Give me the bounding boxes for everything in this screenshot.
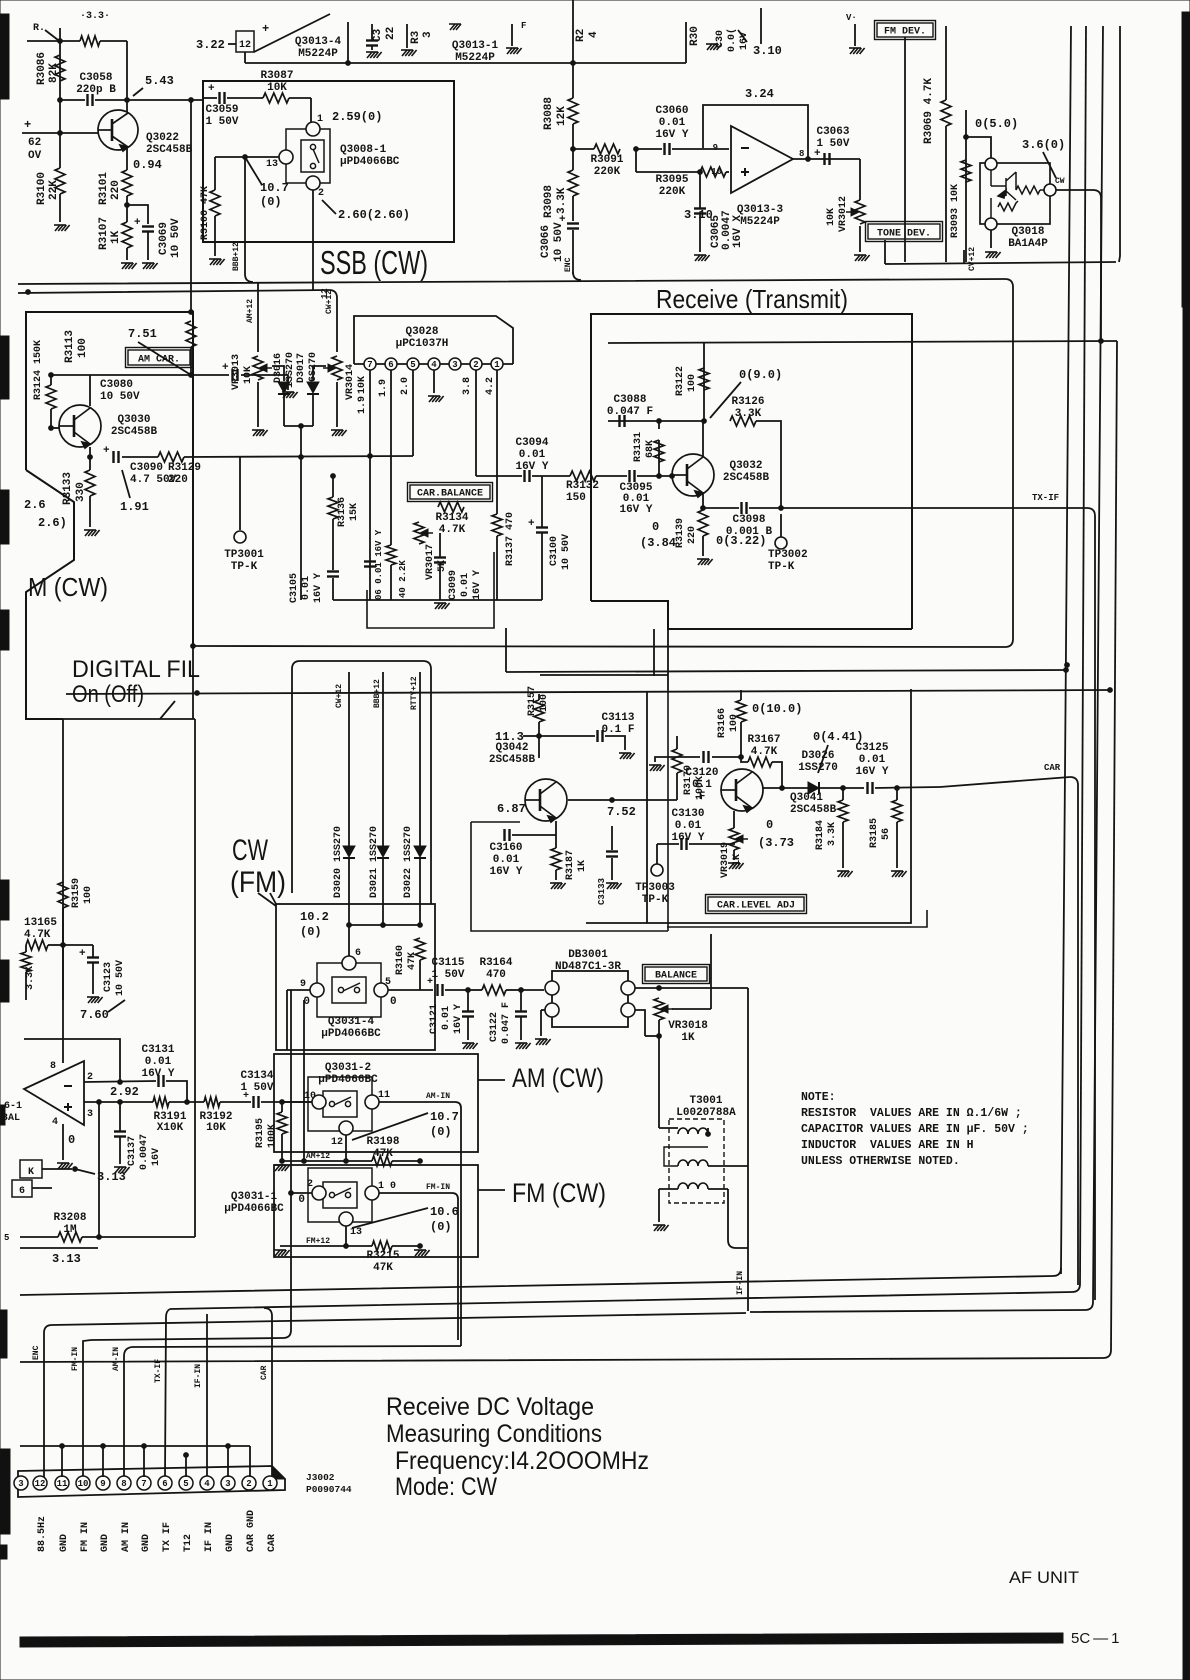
Q3042 box right lower <box>667 690 669 931</box>
node r3215 <box>418 1244 423 1249</box>
AM switch outer box <box>274 1054 478 1152</box>
svg-text:Q3013-1M5224P: Q3013-1M5224P <box>452 40 499 64</box>
wire pin5 t12 <box>185 1455 187 1477</box>
svg-text:Q3013-4M5224P: Q3013-4M5224P <box>295 36 342 60</box>
wire VR3018 arrow in <box>672 1008 711 1010</box>
leader 10.6 <box>352 1208 428 1228</box>
svg-text:C31250.0116V Y: C31250.0116V Y <box>855 742 888 778</box>
node r3208 <box>97 1235 102 1240</box>
op-amp Q3013-4 outline <box>254 14 330 52</box>
wire Q3032 emitter <box>702 494 704 508</box>
wire base lead <box>51 427 59 429</box>
IC pin 2 <box>470 358 482 370</box>
svg-text:3.10: 3.10 <box>753 44 782 58</box>
svg-text:7: 7 <box>141 1479 146 1489</box>
svg-text:D3020 1SS270: D3020 1SS270 <box>333 826 344 898</box>
node R3131 btm <box>657 474 662 479</box>
wire tone box right <box>963 250 965 264</box>
wire r3198 out <box>392 1160 420 1162</box>
capacitor C3 <box>366 41 378 46</box>
svg-text:TX-IF: TX-IF <box>154 1359 163 1383</box>
capacitor C3099 <box>434 558 446 563</box>
svg-text:R3088: R3088 <box>543 97 555 130</box>
diode D3016 <box>278 382 290 394</box>
wire to Q3018 top <box>966 137 991 158</box>
wire R3132 right <box>596 475 627 477</box>
node txif <box>779 506 784 511</box>
leader 3.22 <box>228 43 236 45</box>
node receive bottom <box>1065 663 1070 668</box>
connector pin 8 <box>117 1476 131 1490</box>
wire coil1 in v <box>658 1120 660 1128</box>
svg-text:C31310.0116V Y: C31310.0116V Y <box>141 1044 174 1080</box>
node gnd pin 144 <box>142 1444 147 1449</box>
svg-text:16V Y: 16V Y <box>313 573 324 603</box>
svg-text:22: 22 <box>385 27 397 40</box>
wire VR3018 up <box>710 934 712 1009</box>
svg-text:3: 3 <box>87 1109 93 1120</box>
Q3042 box right <box>667 629 669 690</box>
svg-text:Q30422SC458B: Q30422SC458B <box>489 742 536 766</box>
wire C3080 right <box>241 374 288 376</box>
node d3022 <box>418 923 423 928</box>
wire coil3 in <box>659 1188 678 1190</box>
leader 1.91 <box>122 470 130 498</box>
node R3165 <box>61 943 66 948</box>
wire am+12 rail <box>280 1160 372 1162</box>
svg-text:R3157: R3157 <box>527 686 538 716</box>
capacitor C3137 <box>114 1132 126 1137</box>
svg-text:R3: R3 <box>410 30 422 44</box>
wire coil1 in <box>659 1127 678 1129</box>
svg-text:R2: R2 <box>575 29 587 42</box>
wire car bend <box>1070 777 1078 1285</box>
svg-text:R30: R30 <box>689 26 701 46</box>
pot VR3017 <box>414 522 424 544</box>
svg-text:R3195: R3195 <box>255 1118 266 1148</box>
wire sw2 out <box>379 1101 455 1103</box>
svg-text:C30880.047 F: C30880.047 F <box>607 394 653 418</box>
wire diode join <box>284 425 313 427</box>
wire 670 stub <box>505 628 507 672</box>
connector pin 9 <box>96 1476 110 1490</box>
node C3122 <box>519 988 524 993</box>
svg-text:R3098: R3098 <box>543 185 555 218</box>
sw2 pin10 <box>312 1095 326 1109</box>
wire R3157 b <box>538 722 540 736</box>
pot VR3013 <box>259 364 272 372</box>
svg-text:C3066: C3066 <box>540 225 552 258</box>
pot VR3014 <box>323 364 336 372</box>
CW FM switch box <box>276 904 435 1050</box>
svg-text:3: 3 <box>452 360 457 370</box>
wire digital top rail <box>66 690 1110 694</box>
resistor R3113 <box>186 321 196 347</box>
svg-text:3: 3 <box>422 31 434 38</box>
Q3018 pin right <box>1044 184 1056 196</box>
wire inputs vert <box>635 149 637 172</box>
wire C3122 <box>520 990 522 1011</box>
svg-text:3.8: 3.8 <box>462 377 473 395</box>
svg-text:+: + <box>103 445 110 457</box>
node left col <box>58 98 63 103</box>
CW FM box <box>270 893 276 904</box>
wire R3139 btm <box>702 536 704 556</box>
node supply <box>571 61 576 66</box>
node top <box>58 39 63 44</box>
capacitor C3066 <box>559 214 579 229</box>
svg-text:BBB+12: BBB+12 <box>373 679 382 708</box>
wire R3126 out <box>756 421 781 508</box>
wire Q3018 out <box>1056 189 1093 191</box>
svg-text:CW: CW <box>1055 177 1065 186</box>
svg-text:GND: GND <box>225 1534 236 1552</box>
resistor R3069 <box>941 100 951 126</box>
svg-text:1: 1 <box>494 360 500 370</box>
svg-text:2.6: 2.6 <box>24 498 46 512</box>
sw2 pin12 <box>339 1121 353 1135</box>
wire C3065 v <box>699 172 701 208</box>
svg-text:3.6(0): 3.6(0) <box>1022 138 1065 152</box>
svg-text:D30261SS270: D30261SS270 <box>798 750 838 774</box>
svg-text:C3099: C3099 <box>448 570 459 600</box>
svg-text:R3100: R3100 <box>36 172 48 205</box>
wire coil3 out <box>708 1188 728 1190</box>
wire VR3013 btm <box>257 382 259 427</box>
svg-text:0.01: 0.01 <box>301 576 312 600</box>
ground C3065 <box>694 255 710 261</box>
wire gnd bus receive <box>333 599 542 601</box>
node digital <box>195 691 200 696</box>
bus wire 4 bend <box>20 1350 1111 1362</box>
svg-text:6: 6 <box>19 1186 25 1197</box>
svg-text:C3123: C3123 <box>103 962 114 992</box>
svg-text:4: 4 <box>204 1479 210 1489</box>
node t12 <box>184 1453 189 1458</box>
connector pin 10 <box>76 1476 90 1490</box>
bus wire 3 bend <box>750 1302 1093 1312</box>
svg-text:16V Y: 16V Y <box>453 1004 464 1034</box>
BALANCE box <box>643 965 710 984</box>
svg-text:8: 8 <box>799 149 804 159</box>
svg-text:6: 6 <box>355 948 361 959</box>
svg-text:CW+12: CW+12 <box>335 684 344 708</box>
wire stub k <box>42 1168 72 1170</box>
capacitor C3123 <box>79 948 99 963</box>
wire coil3 gnd <box>658 1189 660 1222</box>
ground fm sw <box>274 1250 290 1256</box>
svg-text:AM-IN: AM-IN <box>112 1347 121 1371</box>
svg-text:CAR.LEVEL ADJ: CAR.LEVEL ADJ <box>717 901 795 912</box>
wire C3 gnd <box>371 46 373 50</box>
wire txif down <box>165 1309 170 1477</box>
svg-text:2: 2 <box>473 360 478 370</box>
svg-text:7: 7 <box>367 360 372 370</box>
wire Q3022 collector <box>126 100 128 112</box>
svg-text:R3113: R3113 <box>64 330 76 363</box>
wire R3124 btm <box>50 409 52 428</box>
diode D3017 <box>307 382 319 394</box>
resistor R3165 <box>26 940 48 950</box>
wire D3020 v <box>348 672 350 846</box>
resistor R3159 <box>58 882 68 908</box>
wire DB lb gnd <box>541 1009 545 1011</box>
svg-text:R3131: R3131 <box>633 432 644 462</box>
svg-text:Q3031-1μPD4066BC: Q3031-1μPD4066BC <box>224 1191 284 1215</box>
resistor R3198 <box>372 1156 392 1166</box>
svg-text:16V: 16V <box>151 1148 162 1166</box>
svg-text:2.92: 2.92 <box>110 1085 139 1099</box>
wire R3100 top <box>59 133 61 168</box>
svg-text:+: + <box>222 362 229 374</box>
resistor R3139 <box>698 510 708 536</box>
wire pin1 down <box>497 370 522 476</box>
wire Q3032 base lead <box>671 475 673 476</box>
svg-text:3.13: 3.13 <box>52 1252 81 1266</box>
wire R3165 <box>48 944 63 946</box>
wire R3185 t <box>896 788 898 800</box>
node pin7 main <box>368 454 373 459</box>
right page edge strip <box>1182 12 1190 1680</box>
node R3122 <box>702 419 707 424</box>
pot VR3014 <box>332 356 342 380</box>
wire D3022 v <box>419 672 421 846</box>
leader 2.60 <box>322 200 336 214</box>
node d3020 <box>347 923 352 928</box>
switch Q3031-1 <box>308 1168 372 1222</box>
svg-text:ENC: ENC <box>564 257 573 272</box>
node emitter Q3032 <box>701 506 706 511</box>
svg-text:330: 330 <box>75 482 87 502</box>
connector pin 3 <box>14 1476 28 1490</box>
wire R3140 btm <box>390 565 392 600</box>
wire C3121 b <box>467 1017 469 1040</box>
wire DB lb elbow <box>540 1010 542 1036</box>
svg-text:3.3K: 3.3K <box>556 187 568 214</box>
leader 7.60 <box>108 1000 125 1012</box>
svg-text:D3021 1SS270: D3021 1SS270 <box>369 826 380 898</box>
wire vr3019 b <box>733 850 735 860</box>
svg-text:C30631 50V: C30631 50V <box>816 126 849 150</box>
wire 654 stub <box>653 629 655 676</box>
IC Q3028 bottom edge <box>354 363 513 365</box>
svg-text:5: 5 <box>4 1233 9 1243</box>
diode channel box <box>300 661 431 904</box>
wire R3106 top <box>214 157 216 190</box>
wire Q3018 gnd <box>990 230 992 248</box>
wire VR3014 btm <box>336 382 338 427</box>
pot VR3013 <box>253 356 263 380</box>
wire fm-in down <box>290 990 292 1330</box>
svg-text:5.43: 5.43 <box>145 74 174 88</box>
diode bridge DB3001 box <box>552 971 628 1027</box>
svg-text:(3.84: (3.84 <box>640 536 676 550</box>
svg-text:D3016: D3016 <box>273 353 284 383</box>
resistor R3100 <box>55 168 65 194</box>
svg-text:CAR GND: CAR GND <box>246 1510 257 1552</box>
wire R3164 r <box>506 989 521 991</box>
svg-text:AF UNIT: AF UNIT <box>1009 1568 1079 1587</box>
wire if-in bend <box>747 988 749 1311</box>
svg-text:FM-IN: FM-IN <box>426 1183 450 1192</box>
wire R3136 btm <box>332 519 334 570</box>
resistor R3122 <box>699 368 709 390</box>
wire R3069 top <box>945 26 947 100</box>
ground C3080 <box>282 392 298 398</box>
capacitor C3063 <box>825 153 830 165</box>
wire AM+12 down <box>257 282 259 352</box>
node diode join <box>299 424 304 429</box>
wire rb join <box>645 1035 659 1037</box>
svg-text:FM (CW): FM (CW) <box>512 1178 606 1208</box>
node r3198 <box>418 1159 423 1164</box>
capacitor C3065 <box>694 209 706 214</box>
wire to VR3012 <box>859 159 861 200</box>
svg-text:0(10.0): 0(10.0) <box>752 702 802 716</box>
ground VR3014 <box>331 430 347 436</box>
leader digital <box>160 701 175 719</box>
svg-text:IF-IN: IF-IN <box>736 1271 745 1295</box>
svg-text:C31130.1 F: C31130.1 F <box>601 712 634 736</box>
IC Q3028 outline <box>354 316 513 364</box>
svg-text:C31300.0116V Y: C31300.0116V Y <box>671 808 704 844</box>
wire R3091 left <box>573 148 594 150</box>
capacitor C3160 <box>505 829 510 841</box>
svg-text:+: + <box>79 948 86 960</box>
wire C3100 btm <box>541 533 543 600</box>
capacitor C3060 <box>665 143 670 155</box>
wire c3133 <box>611 826 613 850</box>
wire R3131 v <box>658 440 660 476</box>
svg-text:88.5Hz: 88.5Hz <box>37 1516 48 1552</box>
svg-text:5C — 1: 5C — 1 <box>1071 1630 1120 1647</box>
svg-text:R.: R. <box>33 23 45 34</box>
node car2 <box>895 786 900 791</box>
ground pin4 <box>428 396 444 402</box>
svg-text:FM IN: FM IN <box>80 1522 91 1552</box>
wire D3022 b <box>419 858 421 925</box>
svg-text:12: 12 <box>35 1479 46 1489</box>
ground C3137 <box>114 1167 130 1173</box>
CAR LEVEL ADJ box <box>706 895 807 914</box>
svg-text:10 50V: 10 50V <box>553 222 565 262</box>
svg-text:10K: 10K <box>357 376 368 394</box>
svg-text:8: 8 <box>121 1479 126 1489</box>
pin 12 box <box>236 31 254 52</box>
connector J3002 corner <box>272 1466 285 1479</box>
svg-text:10 50V: 10 50V <box>115 960 126 996</box>
Q3042 sub box <box>471 822 668 931</box>
svg-text:R3185: R3185 <box>869 818 880 848</box>
connector stub K <box>20 1160 42 1178</box>
node at box <box>189 98 194 103</box>
svg-text:GND: GND <box>59 1534 70 1552</box>
connector pin 1 <box>263 1476 277 1490</box>
svg-text:C30600.0116V Y: C30600.0116V Y <box>655 105 688 141</box>
wire top left vertical <box>59 28 61 133</box>
svg-text:10: 10 <box>78 1479 89 1489</box>
wire R3137 top <box>496 476 498 514</box>
svg-text:9: 9 <box>100 1479 105 1489</box>
svg-text:3.22: 3.22 <box>196 38 225 52</box>
svg-text:6-1: 6-1 <box>4 1101 22 1112</box>
svg-text:1K: 1K <box>110 230 122 244</box>
svg-text:3.3K: 3.3K <box>827 822 838 846</box>
wire diode bus <box>349 924 420 926</box>
DB pin lb <box>545 1003 559 1017</box>
wire pin2 down <box>475 370 477 476</box>
bus wire 1 bend <box>20 1268 1061 1295</box>
capacitor C3090 <box>114 451 119 463</box>
svg-text:C3133: C3133 <box>597 878 607 905</box>
Receive box bottom staircase <box>591 601 912 629</box>
svg-text:R3184: R3184 <box>815 820 826 850</box>
capacitor C3115 <box>438 984 443 996</box>
capacitor C3080 <box>233 369 238 381</box>
wire R3170 top <box>676 736 678 749</box>
wire tx-if b <box>749 507 781 509</box>
svg-text:D3017: D3017 <box>296 353 307 383</box>
capacitor C3059 <box>220 92 225 104</box>
svg-text:BALANCE: BALANCE <box>655 971 697 982</box>
wire sw1 out <box>379 1192 452 1194</box>
ground C3 <box>366 52 382 58</box>
wire R3124 top <box>50 375 52 385</box>
wire gnd bend <box>249 1446 251 1477</box>
wire left box edge <box>203 97 217 99</box>
wire gnd pin 103 <box>102 1446 104 1477</box>
wire car <box>940 777 1070 787</box>
svg-text:R3139: R3139 <box>675 518 686 548</box>
svg-text:F: F <box>521 21 526 31</box>
svg-text:K: K <box>28 1167 34 1178</box>
wire txif long <box>781 507 1087 509</box>
svg-text:Q3013-3M5224P: Q3013-3M5224P <box>737 204 784 228</box>
wire fm out down <box>452 1193 458 1340</box>
sw4 pin5 <box>374 983 388 997</box>
car level inner box btm <box>667 910 927 927</box>
DB pin rb <box>621 1003 635 1017</box>
svg-text:0(5.0): 0(5.0) <box>975 117 1018 131</box>
ground fm sw2 <box>414 1250 430 1256</box>
svg-text:7.52: 7.52 <box>607 805 636 819</box>
wire R3170 btm <box>676 773 678 800</box>
left page edge strip <box>0 14 10 1559</box>
leader AM (CW) <box>478 1079 505 1081</box>
wire sw1 pin13 down <box>345 1226 347 1246</box>
wire cap left <box>60 99 85 101</box>
capacitor C3133 <box>606 852 618 857</box>
svg-text:IF-IN: IF-IN <box>194 1364 203 1388</box>
svg-text:13: 13 <box>266 159 278 170</box>
svg-text:CAR: CAR <box>260 1365 269 1380</box>
wire pin3 r <box>84 1101 153 1103</box>
pot VR3012 <box>855 200 865 224</box>
node 670 <box>1064 668 1069 673</box>
wire pin5 down <box>412 370 414 456</box>
resistor R3137 <box>492 514 502 536</box>
leader fm box <box>258 893 276 906</box>
node c3095 r <box>670 474 675 479</box>
node R3124 btm <box>49 426 54 431</box>
wire R3137 btm <box>496 536 498 600</box>
wire corner top <box>126 41 128 100</box>
node 11.3 <box>537 734 542 739</box>
pot VR3018 <box>654 998 664 1020</box>
capacitor C3131 <box>159 1075 164 1087</box>
node base Q3030 <box>189 373 194 378</box>
svg-text:R3106 47K: R3106 47K <box>200 186 211 240</box>
